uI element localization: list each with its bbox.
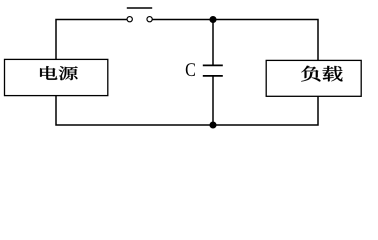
wire capacitor bottom lead [212, 76, 214, 125]
label C (capacitor value) [186, 63, 195, 76]
load box 负载 [266, 60, 361, 96]
wire top left (source box to switch) [56, 20, 127, 60]
wire bottom right (bottom rail to load box) [213, 96, 318, 125]
wire top right (switch to load box) [152, 20, 318, 61]
label 负 (load text char 1) [301, 66, 320, 82]
switch SW blade bar [127, 7, 152, 9]
capacitor C plates [203, 65, 223, 76]
wire bottom left (source box to bottom rail) [56, 96, 213, 125]
label 电 (power source text char 1) [40, 66, 57, 80]
switch SW terminal circles [127, 17, 152, 22]
power source box 电源 [5, 59, 108, 95]
label 源 (power source text char 2) [59, 66, 78, 80]
node junction bottom [209, 121, 216, 128]
wire capacitor top lead [212, 20, 214, 66]
node junction top [209, 16, 216, 23]
label 载 (load text char 2) [322, 66, 342, 81]
